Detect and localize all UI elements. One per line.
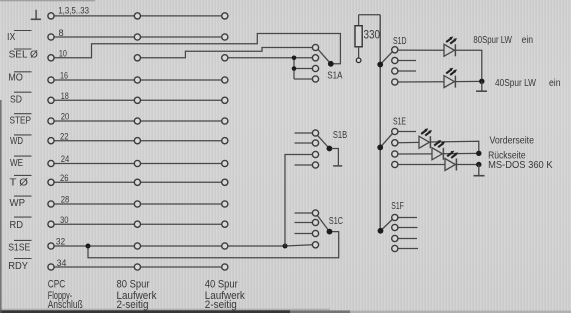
- svg-text:S1C: S1C: [329, 216, 343, 227]
- junction S1SE tap: [86, 244, 91, 249]
- wire S1D pos4 to LED40: [398, 81, 444, 83]
- switch S1B: [295, 130, 333, 168]
- wire S1B pos3 down to pin32: [285, 155, 313, 247]
- wire STEP pin20: [51, 120, 225, 122]
- wire WE pin24: [51, 163, 225, 165]
- wire 40Spur pin10 to S1A pos2/3/4: [225, 58, 313, 79]
- svg-text:18: 18: [61, 91, 69, 102]
- svg-text:34: 34: [57, 258, 67, 269]
- svg-text:WD: WD: [10, 135, 23, 147]
- wire LED80 to ground rail: [455, 50, 481, 81]
- label CPC Floppy-Anschluss: [48, 279, 83, 312]
- svg-text:RDY: RDY: [8, 260, 28, 272]
- svg-text:2-seitig: 2-seitig: [205, 299, 237, 311]
- junction S1C pos4: [283, 244, 288, 249]
- switch S1F: [378, 214, 418, 251]
- label IX: [7, 31, 32, 43]
- wire supply rail vertical: [379, 15, 381, 231]
- svg-text:22: 22: [60, 131, 69, 142]
- label WE: [10, 156, 32, 169]
- label 80Spur LW ein: [473, 35, 533, 46]
- wire S1E pos4 to LED MS-DOS: [398, 164, 445, 166]
- svg-text:40Spur LW: 40Spur LW: [495, 78, 536, 89]
- svg-text:16: 16: [60, 70, 68, 81]
- label S1E: [393, 117, 406, 128]
- label S1D: [393, 36, 407, 47]
- switch S1E: [377, 128, 416, 167]
- label S1B: [333, 130, 347, 141]
- svg-text:40 Spur: 40 Spur: [205, 279, 238, 291]
- wire RDY pin34: [51, 266, 225, 268]
- label S1C: [329, 216, 343, 227]
- wire S1B pole to ground: [332, 149, 342, 166]
- wire LED MS-DOS to rail: [456, 164, 478, 166]
- LED MS-DOS: [445, 151, 458, 171]
- svg-text:30: 30: [60, 215, 69, 226]
- label WP: [10, 196, 32, 209]
- switch S1C: [295, 210, 333, 248]
- svg-text:SD: SD: [10, 93, 22, 105]
- svg-text:S1E: S1E: [393, 117, 406, 128]
- svg-text:8: 8: [59, 28, 64, 39]
- svg-text:MS-DOS 360 K: MS-DOS 360 K: [488, 160, 553, 171]
- svg-text:Anschluß: Anschluß: [48, 299, 83, 311]
- label STEP: [10, 114, 32, 127]
- value 330: [364, 30, 381, 42]
- wire LED40 join: [455, 80, 481, 82]
- wire S1SE tap to S1C pole: [88, 232, 339, 258]
- svg-text:80 Spur: 80 Spur: [117, 279, 150, 291]
- svg-text:2-seitig: 2-seitig: [117, 299, 149, 311]
- svg-text:80Spur LW: 80Spur LW: [473, 35, 512, 46]
- ground S1D LEDs: [476, 81, 487, 91]
- svg-text:S1D: S1D: [393, 36, 407, 47]
- label 40 Spur Laufwerk 2-seitig: [205, 279, 246, 312]
- resistor R 330: [355, 15, 380, 58]
- svg-text:WE: WE: [10, 157, 23, 169]
- svg-text:20: 20: [61, 112, 70, 123]
- wire WD pin22: [51, 140, 225, 142]
- wire S1E pos2 to LED Vorderseite: [398, 141, 419, 143]
- wire T0 pin26: [51, 181, 225, 183]
- bus 1,3,5..33: [51, 15, 225, 17]
- svg-text:WP: WP: [10, 197, 26, 209]
- junction S1A left upper: [292, 56, 297, 61]
- svg-text:S1SE: S1SE: [8, 241, 30, 253]
- wire IX pin8: [51, 36, 225, 38]
- label Rueckseite: [488, 151, 526, 162]
- wire SEL0 pin10 to S1A pole: [51, 34, 340, 64]
- switch S1A: [312, 44, 333, 82]
- label MS-DOS 360 K: [488, 160, 553, 171]
- junction LED rail D: [479, 79, 484, 84]
- wire LED Vorderseite to rail: [430, 141, 478, 153]
- wire MO pin16: [51, 79, 225, 81]
- label 80 Spur Laufwerk 2-seitig: [117, 279, 158, 312]
- label MO: [8, 72, 31, 84]
- label WD: [10, 135, 32, 147]
- svg-text:RD: RD: [10, 219, 24, 231]
- label SEL O: [9, 49, 38, 61]
- svg-text:1,3,5..33: 1,3,5..33: [58, 5, 89, 16]
- connector 40Spur column: [222, 13, 228, 270]
- wire 80Spur pin10 to S1A pos1: [137, 48, 312, 58]
- svg-text:S1F: S1F: [391, 201, 404, 212]
- wire SD pin18: [51, 99, 225, 101]
- svg-text:T Ø: T Ø: [10, 177, 29, 189]
- svg-text:24: 24: [61, 154, 70, 165]
- svg-text:S1B: S1B: [333, 130, 347, 141]
- terminal +5V open: [356, 58, 361, 63]
- label 40Spur LW ein: [495, 78, 561, 89]
- switch S1D: [377, 47, 416, 85]
- LED Vorderseite: [419, 128, 432, 148]
- svg-text:MO: MO: [8, 72, 23, 84]
- svg-text:10: 10: [59, 49, 67, 60]
- junction S1A left lower: [292, 66, 297, 71]
- svg-text:ein: ein: [522, 35, 534, 46]
- wire WP pin28: [51, 203, 225, 205]
- wire RD pin30: [51, 223, 225, 225]
- svg-text:ein: ein: [549, 78, 561, 89]
- LED 40Spur: [444, 68, 457, 88]
- wire LED Rueckseite to rail: [443, 152, 478, 154]
- wire S1E pos3 to LED Rueckseite: [398, 153, 432, 155]
- label Vorderseite: [490, 135, 535, 146]
- svg-text:S1A: S1A: [327, 70, 342, 81]
- ground pin-1/33: [31, 10, 41, 19]
- LED 80Spur: [444, 37, 457, 57]
- svg-text:32: 32: [56, 237, 65, 248]
- ground S1E LEDs: [474, 165, 485, 176]
- svg-text:SEL Ø: SEL Ø: [9, 49, 38, 61]
- label S1F: [391, 201, 404, 212]
- connector CPC column: [48, 13, 54, 270]
- junction rail E upper: [476, 151, 481, 156]
- junction rail E lower: [476, 162, 481, 167]
- label S1A: [327, 70, 342, 81]
- label RDY: [8, 259, 31, 272]
- connector 80Spur column: [134, 13, 140, 270]
- svg-text:28: 28: [61, 195, 70, 206]
- label RD: [10, 217, 32, 231]
- LED Rueckseite: [432, 140, 445, 160]
- label T O: [10, 175, 32, 188]
- label S1SE: [8, 240, 31, 253]
- svg-text:26: 26: [60, 173, 69, 184]
- wire S1SE pin32: [51, 245, 313, 246]
- svg-text:Vorderseite: Vorderseite: [490, 135, 535, 146]
- pin numbers: [56, 5, 89, 268]
- svg-text:STEP: STEP: [10, 115, 32, 127]
- wire S1D pos1 to LED80: [398, 49, 444, 51]
- label SD: [10, 92, 32, 105]
- svg-text:330: 330: [364, 30, 381, 42]
- svg-text:CPC: CPC: [48, 279, 66, 291]
- svg-text:IX: IX: [7, 31, 15, 43]
